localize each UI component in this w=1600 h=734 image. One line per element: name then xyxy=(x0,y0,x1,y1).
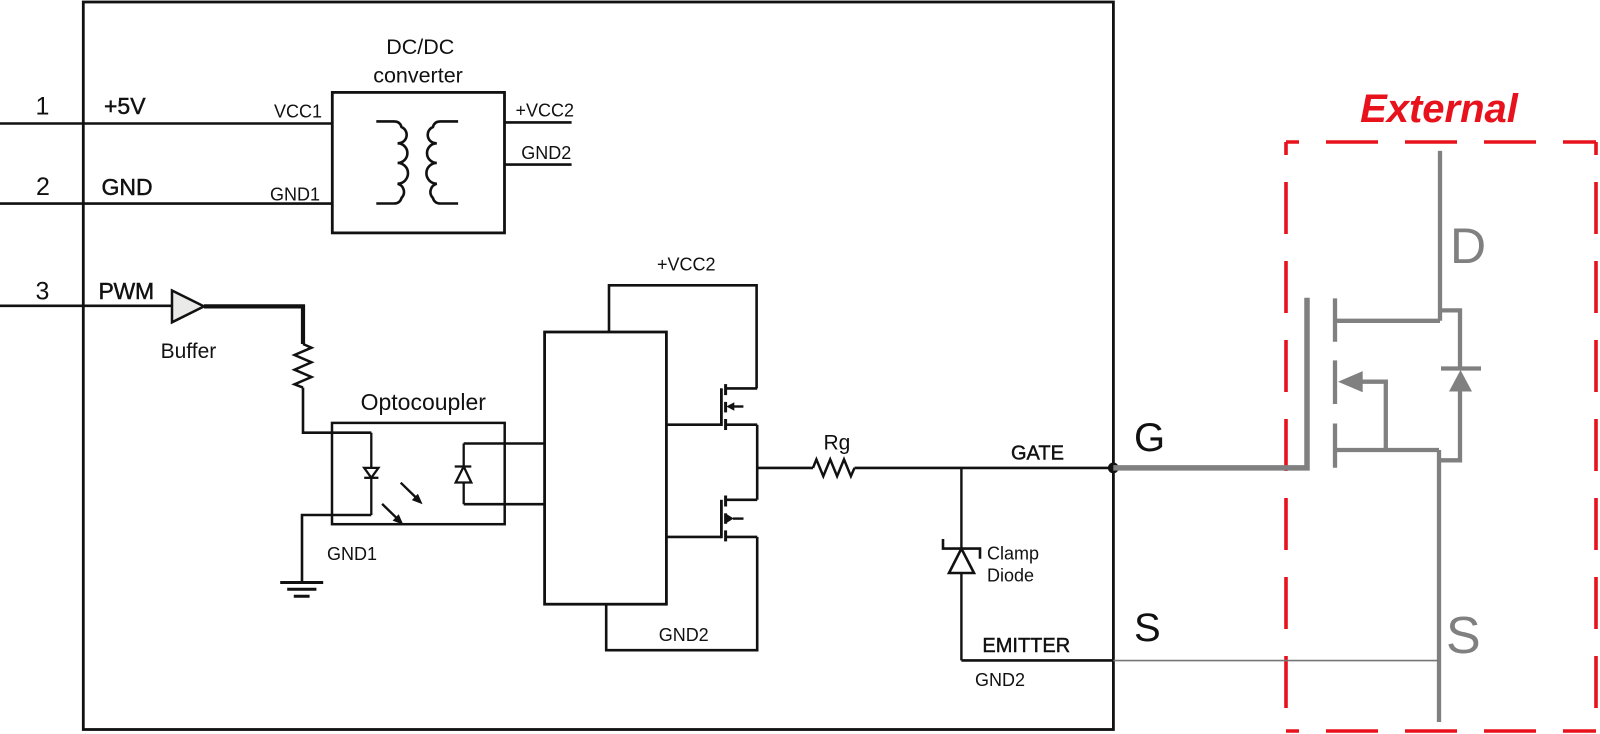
wire LED cathode to GND1 xyxy=(302,515,371,583)
PMOS Q1 source stub xyxy=(726,387,758,390)
clamp diode D3 (zener) xyxy=(943,539,980,559)
NMOS Q2 body arrow xyxy=(726,514,734,524)
svg-text:2: 2 xyxy=(36,173,50,201)
GND2 stub wire from DC/DC xyxy=(505,163,572,166)
thick gray GATE wire to external MOSFET xyxy=(1113,298,1307,468)
wire clamp diode to EMITTER xyxy=(960,573,962,660)
svg-text:GND1: GND1 xyxy=(327,544,377,564)
DC/DC converter box xyxy=(332,92,504,233)
optocoupler LED D1 xyxy=(370,433,372,468)
EMITTER wire xyxy=(961,659,1113,662)
svg-text:EMITTER: EMITTER xyxy=(982,635,1070,657)
svg-text:GATE: GATE xyxy=(1011,442,1064,464)
NMOS Q2 drain stub xyxy=(726,498,758,501)
svg-text:+VCC2: +VCC2 xyxy=(516,101,575,121)
svg-text:GND2: GND2 xyxy=(659,625,709,645)
wire driver output to Rg xyxy=(757,467,813,470)
PMOS Q1 body arrow xyxy=(726,402,734,410)
svg-text:converter: converter xyxy=(373,64,463,88)
wire buffer output to resistor R1 (thick) xyxy=(204,306,303,344)
external section red dashed border xyxy=(1286,142,1596,731)
resistor Rg xyxy=(813,459,855,476)
optocoupler photodiode D2 xyxy=(463,444,465,467)
Q3 body arrow xyxy=(1338,371,1363,392)
svg-text:GND1: GND1 xyxy=(270,184,320,204)
PMOS Q1 drain stub xyxy=(726,423,758,426)
svg-text:S: S xyxy=(1134,606,1161,650)
svg-text:G: G xyxy=(1134,416,1165,460)
wire photodiode anode to driver xyxy=(464,503,545,506)
wire driver to Q2 gate xyxy=(666,536,721,539)
driver IC U3 box xyxy=(545,332,667,604)
thin emitter wire to external source xyxy=(1113,660,1439,662)
junction node G xyxy=(1108,463,1119,474)
pin 2 wire (GND net) xyxy=(0,202,332,205)
buffer U1 xyxy=(172,291,204,323)
wire Rg to GATE node xyxy=(855,467,1114,470)
svg-text:External: External xyxy=(1360,87,1519,131)
svg-text:GND2: GND2 xyxy=(521,143,571,163)
wire R1 to optocoupler LED xyxy=(303,388,371,433)
body diode D4 tap from drain xyxy=(1440,310,1460,368)
pin 3 wire (PWM net) xyxy=(0,304,172,307)
wire GATE to clamp diode xyxy=(960,468,962,550)
light arrow 1 xyxy=(401,483,418,499)
svg-text:Diode: Diode xyxy=(987,565,1034,585)
PMOS Q1 gate bar xyxy=(720,388,723,426)
svg-text:S: S xyxy=(1446,607,1481,665)
svg-text:Clamp: Clamp xyxy=(987,544,1039,564)
svg-text:D: D xyxy=(1450,218,1486,274)
svg-text:3: 3 xyxy=(36,278,50,306)
wire body diode to source xyxy=(1439,391,1460,460)
wire driver to Q1 gate xyxy=(666,423,721,426)
NMOS Q2 source stub xyxy=(726,536,758,539)
optocoupler U2 box xyxy=(332,423,505,524)
main gate-driver board box xyxy=(83,2,1113,730)
+VCC2 stub wire from DC/DC xyxy=(505,121,572,124)
svg-text:DC/DC: DC/DC xyxy=(386,35,454,59)
pin 1 wire (+5V net) xyxy=(0,122,332,125)
svg-text:PWM: PWM xyxy=(99,278,154,304)
svg-text:GND2: GND2 xyxy=(975,670,1025,690)
svg-text:+5V: +5V xyxy=(104,93,146,119)
svg-text:1: 1 xyxy=(36,93,50,121)
wire photodiode cathode to driver xyxy=(464,442,545,445)
svg-text:GND: GND xyxy=(102,174,153,200)
svg-text:Rg: Rg xyxy=(824,432,851,455)
+VCC2 rail wire xyxy=(609,285,757,388)
output rail between Q1 and Q2 xyxy=(756,425,759,500)
external MOSFET Q3 channel segments xyxy=(1333,298,1337,341)
transformer T1 secondary winding xyxy=(426,121,458,203)
transformer T1 primary winding xyxy=(376,121,408,203)
resistor R1 xyxy=(295,344,312,388)
body diode D4 xyxy=(1441,366,1481,370)
svg-text:Optocoupler: Optocoupler xyxy=(361,389,487,415)
NMOS Q2 gate bar xyxy=(720,500,723,538)
Q3 drain stub xyxy=(1335,319,1440,323)
svg-text:+VCC2: +VCC2 xyxy=(657,255,716,275)
NMOS Q2 channel segments xyxy=(724,496,727,507)
light arrow 2 xyxy=(382,504,399,520)
ground symbol GND1 xyxy=(280,581,323,584)
GND2 rail wire xyxy=(606,537,757,650)
svg-text:Buffer: Buffer xyxy=(161,340,217,363)
svg-text:VCC1: VCC1 xyxy=(274,102,322,122)
PMOS Q1 channel segments xyxy=(724,384,727,395)
Q3 source lead S xyxy=(1437,450,1441,722)
Q3 drain lead D xyxy=(1438,151,1442,321)
Q3 source stub xyxy=(1335,448,1439,452)
